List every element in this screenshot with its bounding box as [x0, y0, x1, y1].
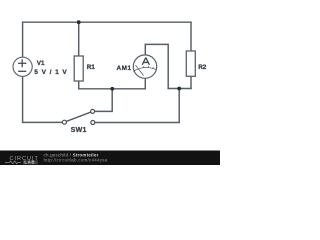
svg-text:AM1: AM1	[117, 65, 132, 72]
switch lever	[66, 112, 90, 121]
wire AM1 top hook	[145, 44, 168, 88]
resistor R1	[74, 56, 83, 81]
switch upper throw terminal	[91, 109, 95, 113]
node A junction on top wire	[77, 20, 81, 24]
voltage source V1	[13, 57, 32, 76]
svg-text:SW1: SW1	[71, 127, 87, 134]
wire V1 bottom drop	[22, 76, 24, 122]
switch lower throw terminal	[91, 121, 95, 125]
wire bottom right horizontal	[95, 122, 179, 124]
watermark CircuitLab logo	[5, 156, 39, 165]
wire AM1 bottom to node B	[112, 78, 145, 89]
wire V1 top riser	[22, 22, 24, 57]
wire bottom left horizontal	[23, 121, 63, 123]
node B junction	[110, 87, 114, 91]
svg-text:5 V / 1 V: 5 V / 1 V	[34, 69, 67, 76]
wire hook to R2 bottom	[168, 88, 191, 90]
watermark bar	[0, 151, 220, 166]
wire R1 bottom to node B	[79, 81, 113, 89]
svg-text:R1: R1	[87, 64, 96, 71]
wire node B drop to switch upper throw	[95, 89, 113, 112]
wire top horizontal	[23, 21, 191, 23]
switch pole terminal	[62, 120, 66, 124]
svg-text:V1: V1	[37, 60, 45, 67]
wire R2 top drop	[190, 22, 192, 51]
wire R2 bottom riser	[190, 76, 192, 88]
wire R1 top drop	[78, 22, 80, 56]
ammeter AM1	[133, 55, 156, 78]
svg-text:R2: R2	[198, 64, 207, 71]
node C junction	[177, 87, 181, 91]
svg-text:http://circuitlab.com/c444ysa: http://circuitlab.com/c444ysa	[44, 158, 108, 163]
svg-text:LAB: LAB	[24, 160, 35, 165]
switch SW1	[62, 109, 94, 124]
resistor R2	[186, 51, 195, 76]
wire node C drop	[178, 89, 180, 123]
